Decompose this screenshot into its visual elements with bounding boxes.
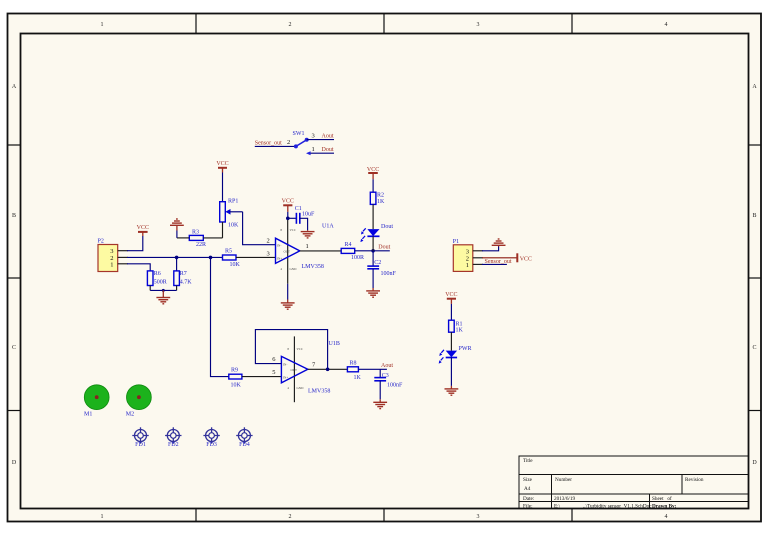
svg-text:5: 5	[272, 369, 275, 376]
svg-text:Aout: Aout	[381, 363, 393, 369]
svg-text:C1: C1	[295, 206, 302, 212]
svg-text:Sensor_out: Sensor_out	[485, 259, 512, 265]
svg-text:3: 3	[477, 22, 480, 28]
wire bus branch down to R9	[211, 257, 229, 376]
wire P1 pin1 Sensor_out	[482, 263, 507, 265]
wire P1 pin3 to ground	[482, 247, 499, 251]
fiducial FD2	[165, 427, 181, 448]
wire to Aout	[307, 139, 334, 141]
svg-text:D: D	[752, 460, 757, 466]
svg-text:R5: R5	[225, 249, 232, 255]
svg-text:..\Turbidity sensor_V1.1.SchDo: ..\Turbidity sensor_V1.1.SchDoc	[583, 504, 652, 510]
svg-text:IN+: IN+	[277, 257, 282, 261]
svg-text:Dout: Dout	[322, 147, 334, 153]
resistor R4	[341, 242, 364, 261]
ground (U1A pin 4)	[281, 300, 295, 310]
ground (below R6/R7)	[156, 290, 170, 303]
svg-text:A: A	[12, 84, 17, 90]
svg-text:1: 1	[466, 262, 469, 269]
svg-text:B: B	[12, 213, 16, 219]
node junction R7	[175, 256, 179, 260]
svg-text:3: 3	[466, 248, 469, 255]
svg-text:D: D	[12, 460, 17, 466]
svg-text:1K: 1K	[456, 328, 464, 334]
connector P2	[98, 239, 129, 272]
svg-text:4.7K: 4.7K	[180, 279, 193, 285]
ground (P1 pin3, above wire)	[492, 239, 506, 247]
svg-text:C2: C2	[374, 260, 381, 266]
svg-text:500R: 500R	[154, 279, 167, 285]
svg-text:C: C	[12, 345, 16, 351]
svg-text:GND: GND	[290, 267, 298, 271]
svg-text:OUT: OUT	[283, 250, 290, 254]
resistor R7	[174, 257, 193, 290]
svg-text:LMV358: LMV358	[308, 388, 330, 394]
wire P2 pin1 down to R6	[127, 264, 150, 271]
svg-text:VCC: VCC	[137, 225, 149, 231]
svg-text:Dout: Dout	[378, 244, 390, 250]
svg-text:IN-: IN-	[283, 363, 287, 367]
power VCC (R2)	[367, 167, 379, 192]
svg-text:E:\: E:\	[554, 504, 561, 510]
resistor R3	[177, 229, 223, 248]
svg-text:U1A: U1A	[322, 224, 334, 230]
svg-text:1: 1	[101, 22, 104, 28]
svg-text:A: A	[752, 84, 757, 90]
resistor R9	[229, 367, 282, 388]
svg-text:LMV358: LMV358	[302, 264, 324, 270]
svg-text:Drawn By:: Drawn By:	[652, 504, 677, 510]
wire feedback loop U1B	[255, 330, 327, 370]
pin 1 stub	[118, 263, 128, 265]
svg-text:1K: 1K	[354, 375, 362, 381]
svg-text:GND: GND	[297, 386, 305, 390]
node junction R6/R7 ground	[162, 289, 165, 292]
svg-text:Number: Number	[555, 477, 572, 483]
ground (C2)	[366, 288, 380, 297]
wire main bus from P2 pin2	[127, 256, 223, 258]
fiducial FD3	[203, 427, 219, 448]
svg-text:2: 2	[267, 238, 270, 245]
svg-text:2: 2	[287, 139, 290, 146]
svg-text:U1B: U1B	[329, 341, 340, 347]
SW1 lever	[296, 140, 307, 147]
mounting hole M2	[126, 385, 151, 418]
svg-text:1: 1	[110, 261, 113, 268]
wire Sensor_out to SW1 pin 2	[255, 145, 296, 147]
resistor R8	[347, 361, 361, 381]
svg-text:R6: R6	[154, 271, 161, 277]
pin 3 stub	[118, 250, 128, 252]
svg-text:P1: P1	[453, 239, 459, 245]
power VCC (P2)	[137, 225, 149, 236]
resistor R6	[147, 271, 166, 291]
svg-text:OUT: OUT	[290, 368, 297, 372]
svg-text:VCC: VCC	[290, 228, 297, 232]
wire RP1 wiper to U1A pin2	[243, 212, 276, 245]
wire VCC to RP1	[222, 173, 224, 202]
switch SW1	[255, 131, 334, 155]
svg-text:22R: 22R	[196, 242, 206, 248]
svg-text:3: 3	[312, 132, 315, 139]
resistor R1	[449, 320, 464, 350]
ground (C3)	[373, 399, 387, 408]
ground (C1)	[301, 230, 315, 238]
op-amp U1B	[272, 336, 340, 402]
svg-text:RP1: RP1	[228, 198, 238, 204]
svg-text:R8: R8	[350, 361, 357, 367]
svg-text:C: C	[752, 345, 756, 351]
svg-text:R7: R7	[180, 271, 187, 277]
node junction Dout	[371, 249, 375, 253]
power VCC (R1/PWR)	[445, 292, 457, 320]
svg-text:A4: A4	[524, 486, 531, 492]
svg-text:Sheet of: Sheet of	[652, 495, 672, 502]
svg-text:10K: 10K	[231, 382, 242, 388]
capacitor C3	[374, 369, 403, 399]
svg-text:R9: R9	[231, 367, 238, 373]
resistor R5	[223, 249, 276, 268]
svg-text:10K: 10K	[230, 262, 241, 268]
svg-text:10uF: 10uF	[302, 212, 315, 218]
LED PWR	[439, 346, 472, 386]
svg-text:VCC: VCC	[297, 347, 304, 351]
fiducial FD1	[132, 427, 148, 448]
svg-text:100R: 100R	[351, 255, 364, 261]
connector P1	[453, 239, 483, 272]
svg-text:VCC: VCC	[216, 161, 228, 167]
svg-text:VCC: VCC	[445, 292, 457, 298]
svg-text:Sensor_out: Sensor_out	[255, 140, 282, 146]
capacitor C1	[288, 206, 315, 230]
power VCC (P1, rotated)	[517, 253, 532, 262]
svg-text:Revision: Revision	[685, 477, 704, 483]
svg-text:VCC: VCC	[282, 199, 294, 205]
wire R4 to Dout node	[355, 250, 390, 252]
svg-text:10K: 10K	[228, 223, 239, 229]
node junction VCC/C1	[286, 217, 290, 221]
ground (PWR LED)	[445, 386, 459, 395]
svg-text:M1: M1	[84, 411, 92, 417]
node junction to U1B branch	[209, 256, 213, 260]
svg-text:FD2: FD2	[168, 442, 179, 448]
wire P1 pin2 to VCC port	[482, 257, 517, 259]
svg-text:P2: P2	[98, 239, 104, 245]
svg-text:2: 2	[289, 514, 292, 520]
svg-text:2013/6/19: 2013/6/19	[554, 496, 575, 502]
svg-text:100nF: 100nF	[387, 382, 403, 388]
svg-text:Date:: Date:	[523, 496, 535, 502]
svg-text:FD4: FD4	[239, 442, 250, 448]
svg-text:3: 3	[267, 251, 270, 258]
svg-text:FD3: FD3	[206, 442, 217, 448]
svg-text:3: 3	[477, 514, 480, 520]
wire R6/R7 bottoms joined	[150, 289, 176, 291]
power VCC (RP1)	[216, 161, 228, 173]
svg-text:Title: Title	[523, 458, 533, 464]
wire to Dout with arrow	[308, 152, 334, 154]
svg-text:1: 1	[306, 243, 309, 250]
wire U1A out to R4	[300, 250, 341, 252]
svg-text:1: 1	[101, 514, 104, 520]
svg-text:B: B	[752, 213, 756, 219]
svg-text:PWR: PWR	[459, 346, 472, 352]
pin 2 stub	[118, 256, 128, 258]
svg-text:R3: R3	[192, 229, 199, 235]
mounting hole M1	[84, 385, 109, 418]
svg-text:R2: R2	[377, 193, 384, 199]
svg-text:Aout: Aout	[322, 133, 334, 139]
svg-text:100nF: 100nF	[381, 271, 397, 277]
ground (left of R3, above wire)	[170, 219, 184, 238]
wire P2 pin3 to VCC	[127, 236, 143, 251]
potentiometer RP1	[220, 198, 243, 238]
svg-text:Size: Size	[523, 477, 533, 483]
svg-text:FD1: FD1	[135, 442, 146, 448]
capacitor C2	[367, 251, 396, 288]
node junction feedback/output	[326, 368, 330, 372]
svg-text:IN+: IN+	[283, 375, 288, 379]
svg-text:VCC: VCC	[520, 256, 532, 262]
svg-text:IN-: IN-	[277, 244, 281, 248]
svg-text:4: 4	[665, 514, 668, 520]
svg-text:2: 2	[289, 22, 292, 28]
svg-text:4: 4	[665, 22, 668, 28]
svg-text:Dout: Dout	[381, 224, 393, 230]
wire U1B output	[308, 368, 348, 370]
svg-text:1K: 1K	[377, 199, 385, 205]
op-amp U1A	[267, 218, 335, 299]
fiducial FD4	[236, 427, 252, 448]
svg-text:1: 1	[312, 146, 315, 153]
svg-text:M2: M2	[126, 411, 134, 417]
title block	[519, 456, 749, 509]
svg-text:R4: R4	[345, 242, 352, 248]
svg-text:File:: File:	[523, 504, 533, 510]
LED Dout	[360, 224, 393, 251]
resistor R2	[370, 192, 385, 229]
svg-text:C3: C3	[382, 373, 389, 379]
svg-text:SW1: SW1	[293, 131, 305, 137]
wire R8 to Aout	[358, 368, 387, 370]
power VCC (U1A supply)	[282, 199, 294, 219]
